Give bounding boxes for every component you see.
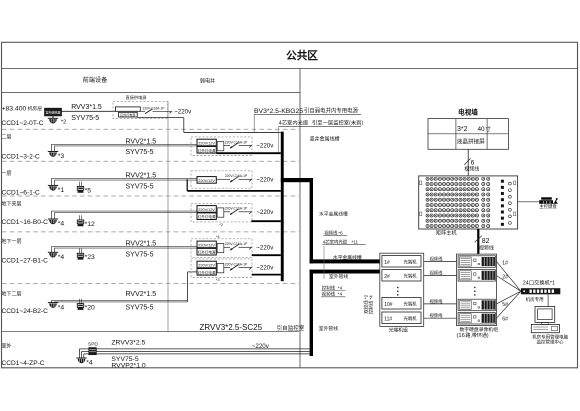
node CCD1~24-B2-C (2, 308, 49, 315)
svg-text:220V/12V: 220V/12V (198, 243, 215, 247)
svg-text:室外管线: 室外管线 (319, 325, 338, 332)
svg-text:~220v: ~220v (256, 143, 274, 150)
wire row4 cameras to supply (52, 211, 198, 219)
label 矩阵主机 (436, 228, 458, 236)
count mark *4 (216, 234, 221, 239)
feeder label ZRVV3*2.5-SC25 (200, 323, 305, 332)
camera dome CCD1~16 a (48, 219, 65, 228)
node CCD1~16-B0-C (2, 219, 49, 226)
rotated cable labels 双绞线/控制线 (363, 294, 375, 314)
cable label RVV3*1.5 (71, 104, 102, 111)
svg-text:BV3*2.5-KBG25: BV3*2.5-KBG25 (254, 108, 303, 115)
node CCD1~27-B1-C (2, 257, 49, 264)
connector box (217, 264, 224, 273)
svg-text:光端机: 光端机 (404, 315, 418, 322)
svg-text:地下夹层: 地下夹层 (2, 201, 22, 208)
port label 2# (502, 275, 508, 281)
svg-text:引自弱电井内专用电源: 引自弱电井内专用电源 (304, 107, 359, 115)
IR lamp power 红外灯电源 (197, 213, 216, 220)
label 光端机组 (389, 326, 408, 333)
label 室外管线 (bottom) (319, 325, 338, 332)
svg-text:10#: 10# (384, 302, 393, 308)
optical transceiver 1# 光端机 (382, 256, 421, 268)
power supply enclosure (dashed) (191, 259, 252, 278)
surge protector SPD (88, 342, 98, 355)
floor separator line (2, 128, 299, 130)
svg-text:RVVP2*1.0: RVVP2*1.0 (111, 363, 145, 370)
svg-text:*1: *1 (58, 187, 65, 194)
ellipsis dots (397, 287, 399, 296)
svg-text:~220v: ~220v (252, 343, 270, 350)
svg-text:SPD: SPD (88, 342, 98, 348)
breaker 220V-C16A-1P (216, 174, 251, 182)
svg-text:水平金属线槽: 水平金属线槽 (333, 254, 362, 261)
wire switch to PC (547, 294, 549, 306)
wire row6 cameras riser to supply (52, 272, 198, 303)
svg-text:SYV75-5: SYV75-5 (71, 115, 99, 122)
svg-text:CCD1~24-B2-C: CCD1~24-B2-C (2, 308, 49, 315)
management PC 机房专用管理电脑 (531, 307, 568, 346)
power source ~220v row1 (174, 108, 192, 115)
svg-text:路,带环通): 路,带环通) (466, 332, 489, 339)
floor separator line (2, 195, 299, 197)
svg-text:视频线: 视频线 (430, 298, 444, 305)
ethernet switch 24口交换机 (521, 279, 560, 303)
svg-text:+83.400: +83.400 (2, 105, 27, 112)
svg-text:二层: 二层 (2, 134, 12, 141)
wire supply to trunk row5 (252, 254, 281, 256)
svg-text:ZRVV3*2.5-SC25: ZRVV3*2.5-SC25 (200, 323, 263, 332)
wire row5 cameras to supply (52, 247, 198, 253)
svg-text:11#: 11# (384, 316, 392, 322)
optical transceiver 10# 光端机 (382, 298, 421, 310)
svg-text:~220v: ~220v (174, 108, 192, 115)
control keyboard 主控键盘 (539, 197, 558, 210)
svg-text:红外灯电源: 红外灯电源 (198, 270, 216, 276)
svg-text:220V/12V: 220V/12V (198, 264, 215, 268)
svg-text:*20: *20 (85, 305, 95, 312)
svg-text:*4: *4 (58, 221, 65, 228)
wire transceiver to DVR (424, 298, 457, 305)
cable label SYV75-5 (126, 305, 154, 312)
svg-text:矩阵主机: 矩阵主机 (436, 228, 458, 236)
svg-text:寸: 寸 (485, 125, 491, 133)
floor separator line (2, 160, 299, 162)
leader line (323, 246, 325, 279)
wires DVR to switch (497, 262, 521, 319)
cable label SYV75-5 (126, 251, 154, 258)
svg-text:ZRVV3*2.5: ZRVV3*2.5 (111, 340, 145, 347)
trunk elbow (281, 178, 313, 182)
svg-text:*3: *3 (58, 153, 65, 160)
svg-text:220V/12V: 220V/12V (198, 208, 215, 212)
svg-text:引至一层监控室(未到): 引至一层监控室(未到) (312, 119, 363, 127)
label 视频线 *4 (321, 291, 346, 298)
svg-text:光端机组: 光端机组 (389, 326, 408, 333)
DVR 数字硬盘录像机 4 (458, 313, 495, 325)
label 数字硬盘录像机组 (457, 326, 499, 339)
svg-text:光端机: 光端机 (404, 301, 418, 308)
svg-text:红外灯电源: 红外灯电源 (198, 250, 216, 256)
camera dome CCD1~6 a (48, 185, 65, 194)
IR lamp power 红外灯电源 (197, 248, 216, 255)
column header 弱电井 (200, 78, 215, 85)
floor label 地下一层 (2, 238, 22, 245)
connector box (217, 142, 224, 151)
power source ~220v (256, 244, 274, 251)
power unit 220V/12V (197, 241, 216, 248)
svg-text:RVV2*1.5: RVV2*1.5 (126, 173, 157, 180)
label 水平金属线槽 (branch) (333, 254, 362, 261)
IR lamp power 红外灯电源 (197, 269, 216, 276)
floor label 地下夹层 (2, 201, 22, 208)
video matrix 矩阵主机 (419, 176, 518, 229)
svg-text:主控键盘: 主控键盘 (539, 203, 557, 210)
svg-text:4芯室内光缆: 4芯室内光缆 (279, 119, 309, 127)
DVR 数字硬盘录像机 3 (458, 299, 495, 311)
svg-text:*12: *12 (85, 221, 95, 228)
floor separator line (2, 231, 299, 233)
count mark *2 (219, 222, 224, 227)
wire matrix to keyboard (518, 201, 540, 203)
label 控制线 *4 (321, 284, 346, 291)
power source ~220v (256, 143, 274, 150)
svg-text:地下一层: 地下一层 (2, 238, 22, 245)
svg-text:(16: (16 (457, 333, 465, 339)
label 视频线 *6 (323, 229, 347, 236)
wire building face line (167, 101, 169, 332)
breaker 220V-C16A-1P (224, 242, 252, 250)
svg-text:竖井金属线槽: 竖井金属线槽 (310, 135, 340, 142)
horizontal wireway branch to transceiver 2# (310, 270, 380, 274)
svg-text:*5: *5 (85, 187, 92, 194)
svg-text:RVV2*1.5: RVV2*1.5 (126, 291, 157, 298)
power source ~220v (256, 209, 274, 216)
power supply enclosure (dashed) (191, 171, 252, 188)
cable label RVVP2*1.0 (111, 363, 145, 370)
svg-text:CCD1~27-B1-C: CCD1~27-B1-C (2, 257, 49, 264)
port label 1# (502, 260, 508, 266)
svg-text:红外灯电源: 红外灯电源 (120, 112, 135, 117)
svg-text:监控管理中心: 监控管理中心 (537, 339, 564, 346)
wire transceiver to DVR (424, 256, 457, 263)
power supply enclosure (dashed) (191, 203, 252, 222)
camera dome CCD1~24 a (48, 303, 65, 312)
svg-text:SYV75-5: SYV75-5 (126, 149, 154, 156)
power source ~220v (256, 176, 274, 183)
svg-text:*4: *4 (58, 254, 65, 261)
node CCD1~4-ZP-C (2, 360, 45, 367)
wire transceiver to DVR (424, 270, 457, 277)
svg-text:RVV2*1.5: RVV2*1.5 (126, 138, 157, 145)
power source ~220v (256, 265, 274, 272)
port label 5# (502, 302, 508, 308)
svg-text:地下二层: 地下二层 (2, 291, 22, 298)
svg-text:SYV75-5: SYV75-5 (126, 251, 154, 258)
ellipsis dots (474, 287, 476, 296)
power unit 220V/12V (197, 206, 216, 213)
wire outdoor bundle (79, 349, 309, 358)
wire IR output to riser trunk (137, 118, 281, 133)
port label 6# (502, 316, 508, 322)
IR lamp power 红外灯电源 row1 (119, 112, 138, 117)
camera fixed CCD1~16 b (77, 215, 95, 228)
svg-text:220V/12V: 220V/12V (198, 142, 215, 146)
svg-text:CCD1~3-2-C: CCD1~3-2-C (2, 153, 41, 160)
cable label RVV2*1.5 (126, 291, 157, 298)
svg-text:红外灯电源: 红外灯电源 (198, 214, 216, 220)
DVR 数字硬盘录像机 1 (458, 256, 495, 267)
device box (unlabeled) (115, 107, 140, 111)
svg-text:RVV3*1.5: RVV3*1.5 (71, 104, 102, 111)
svg-text:~220v: ~220v (256, 176, 274, 183)
svg-text:~220v: ~220v (256, 265, 274, 272)
svg-text:视频线: 视频线 (430, 312, 444, 319)
svg-text:5#: 5# (502, 302, 508, 308)
node +83.400 机房层 label (2, 105, 43, 112)
IR lamp power 红外灯电源 (197, 147, 216, 154)
svg-text:光端机: 光端机 (404, 259, 418, 266)
svg-text:视频线: 视频线 (324, 229, 338, 236)
cable label RVV2*1.5 (126, 138, 157, 145)
vertical trunk (right riser) (310, 178, 313, 356)
svg-text:*4: *4 (338, 285, 343, 290)
power supply enclosure (dashed) (191, 137, 252, 156)
floor label 室外 (2, 343, 12, 350)
svg-text:*11: *11 (352, 239, 359, 244)
optical transceiver group box (380, 253, 424, 326)
svg-text:*2: *2 (61, 119, 66, 125)
power unit 220V/12V (197, 261, 216, 268)
horizontal wireway branch to transceiver 1# (310, 259, 380, 263)
svg-text:机房专用: 机房专用 (526, 296, 544, 303)
floor separator line (2, 283, 299, 285)
svg-text:*4: *4 (338, 292, 343, 297)
svg-text:前端设备: 前端设备 (83, 75, 109, 84)
svg-text:SYV75-5: SYV75-5 (126, 183, 154, 190)
wire supply to trunk row3 (187, 179, 281, 191)
camera dome CCD1~4 outdoor (76, 358, 93, 367)
svg-text:水平金属线槽: 水平金属线槽 (319, 210, 348, 217)
svg-text:机房层: 机房层 (28, 105, 43, 112)
svg-text:*4: *4 (86, 360, 93, 367)
power supply enclosure (dashed) (191, 239, 252, 258)
label 室外管线 (branch) (329, 273, 348, 280)
node CCD1~3-2-C (2, 153, 41, 160)
power supply enclosure row1 (dashed) (113, 94, 168, 119)
power source ~220v outdoor (252, 343, 270, 350)
svg-text:4芯室内光缆: 4芯室内光缆 (323, 238, 348, 245)
title 公共区 (286, 48, 318, 63)
svg-text:SYV75-5: SYV75-5 (126, 305, 154, 312)
cable label ZRVV3*2.5 (111, 340, 145, 347)
svg-text:6#: 6# (502, 316, 508, 322)
svg-text:CCD1~6-1-C: CCD1~6-1-C (2, 189, 41, 196)
svg-text:红外灯电源: 红外灯电源 (198, 148, 216, 154)
svg-text:1#: 1# (502, 260, 508, 266)
wire row2 camera to supply (52, 144, 198, 151)
svg-text:24口交换机*1: 24口交换机*1 (523, 279, 555, 287)
DVR 数字硬盘录像机 2 (458, 270, 495, 282)
TV wall 电视墙 (428, 107, 508, 150)
svg-text:RVV2*1.5: RVV2*1.5 (126, 241, 157, 248)
optical transceiver 2# 光端机 (382, 270, 421, 282)
svg-text:CCD1~2-0T-C: CCD1~2-0T-C (2, 120, 44, 127)
cable label SYV75-5 (126, 149, 154, 156)
svg-text:*6: *6 (338, 230, 343, 235)
breaker row1 220V-C16A-1P (140, 106, 172, 113)
cable label RVV2*1.5 (126, 173, 157, 180)
wire TV wall to matrix (464, 149, 479, 176)
svg-text:CCD1~16-B0-C: CCD1~16-B0-C (2, 219, 49, 226)
wire row3 cameras to supply (52, 179, 198, 186)
fiber label 4芯室内光缆 (279, 119, 364, 154)
svg-text:电视墙: 电视墙 (458, 107, 478, 117)
svg-text:视频线: 视频线 (430, 270, 444, 277)
camera fixed CCD1~27 b (77, 249, 95, 262)
svg-text:控制线 *4: 控制线 *4 (368, 295, 375, 315)
cable label RVV2*1.5 (126, 241, 157, 248)
svg-text:一层: 一层 (2, 170, 12, 177)
optical transceiver 11# 光端机 (382, 312, 421, 324)
svg-text:公共区: 公共区 (286, 48, 318, 63)
svg-text:视频线: 视频线 (430, 256, 444, 263)
node CCD1~6-1-C (2, 189, 41, 196)
svg-text:液晶拼接屏: 液晶拼接屏 (457, 137, 485, 145)
count label *2 (61, 119, 66, 125)
svg-text:2#: 2# (502, 275, 508, 281)
connector box (217, 208, 224, 217)
camera dome CCD1~27 a (48, 252, 65, 261)
svg-text:室外: 室外 (2, 343, 12, 350)
camera dome CCD1~2 with decoder box (45, 108, 62, 123)
wire camera to supply box (62, 110, 116, 112)
camera dome CCD1~3 (48, 152, 65, 161)
wire supply to trunk row6 (252, 274, 281, 276)
svg-text:3*2: 3*2 (457, 126, 468, 133)
svg-text:1#: 1# (384, 260, 390, 266)
wire supply to trunk row2 (217, 152, 281, 154)
camera fixed CCD1~24 b (77, 299, 95, 312)
label 水平金属线槽 (upper) (319, 210, 348, 217)
svg-text:光端机: 光端机 (404, 273, 418, 280)
label 4芯室内光缆 *11 (322, 238, 366, 245)
cable label SYV75-5 (71, 115, 99, 122)
wire transceiver to DVR (424, 312, 457, 319)
svg-text:40: 40 (478, 126, 486, 133)
column header 前端设备 (83, 75, 109, 84)
svg-text:~220v: ~220v (256, 244, 274, 251)
floor label 一层 (2, 170, 12, 177)
svg-text:弱电井: 弱电井 (200, 78, 215, 85)
svg-text:~220v: ~220v (256, 209, 274, 216)
wire supply to trunk row4 (251, 220, 280, 222)
breaker 220V-C16A-1P (224, 262, 252, 270)
svg-text:CCD1~4-ZP-C: CCD1~4-ZP-C (2, 360, 45, 367)
svg-text:*4: *4 (58, 304, 65, 311)
svg-text:室外解码器: 室外解码器 (45, 110, 60, 115)
cable label SYV75-5 (111, 356, 138, 363)
power unit 220V/12V (197, 177, 216, 184)
feeder label BV3*2.5-KBG25 (254, 107, 361, 133)
svg-text:视频线: 视频线 (479, 244, 494, 251)
svg-text:室外管线: 室外管线 (329, 273, 348, 280)
cable label SYV75-5 (126, 183, 154, 190)
floor label 地下二层 (2, 291, 22, 298)
svg-text:视频线: 视频线 (464, 165, 479, 172)
floor separator line (outdoor, solid) (2, 331, 300, 333)
svg-text:220V-C16A-1P: 220V-C16A-1P (143, 106, 166, 110)
trunk label 竖井金属线槽 (310, 135, 340, 142)
count mark *3 (216, 277, 221, 282)
vertical shaft trunk (left riser) (281, 132, 284, 282)
svg-text:直接供电源: 直接供电源 (126, 94, 148, 101)
breaker 220V-C16A-1P (224, 140, 252, 148)
floor label 二层 (2, 134, 12, 141)
DVR group box (457, 254, 497, 326)
power unit 220V/12V (197, 139, 216, 146)
camera fixed CCD1~6 b (77, 182, 91, 195)
wire matrix to DVR (82 video) (475, 229, 494, 254)
svg-text:220V/12V: 220V/12V (198, 179, 215, 183)
connector box (217, 243, 224, 252)
breaker 220V-C16A-1P (224, 207, 252, 215)
svg-text:引自监控室: 引自监控室 (277, 324, 305, 332)
svg-text:*23: *23 (85, 254, 95, 261)
svg-text:2#: 2# (384, 274, 390, 280)
node CCD1~2-0T-C (2, 120, 44, 127)
